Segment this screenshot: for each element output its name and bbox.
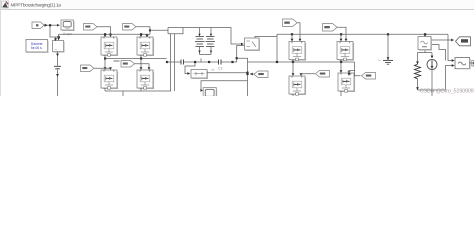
mosfet M1b (101, 70, 118, 89)
Goto tag T8 (301, 74, 315, 75)
bus corner to V2 (448, 34, 453, 60)
junction dot (58, 36, 60, 38)
wire below B1 to cap (57, 52, 59, 66)
wire T1 branch down to source block (50, 27, 59, 38)
svg-text:C3: C3 (218, 66, 223, 70)
B5 block (measure) (185, 63, 195, 74)
V2 lower wire (446, 66, 453, 91)
V1 stepped wire down right (432, 45, 446, 61)
V2 block (455, 58, 470, 69)
mosfet M2 (137, 37, 154, 56)
window edges (0, 0, 2, 96)
dot M2 drain (140, 33, 142, 35)
Goto tag T10 (456, 37, 471, 46)
From tag T5 (323, 24, 338, 32)
primary wiring (150, 29, 168, 31)
wire T1 to scope (44, 24, 60, 26)
transformer coil 1 (195, 37, 205, 47)
tiny label above M1b (114, 60, 120, 62)
capacitor C3 (218, 60, 220, 65)
drops to lower fets (104, 59, 106, 70)
V2 out (470, 62, 473, 64)
Goto tag T9 (355, 62, 361, 76)
mid rail left (104, 55, 106, 59)
mosfet M4b (338, 73, 355, 92)
right mid rail (292, 60, 294, 63)
feedback wire to scope2 (201, 81, 248, 91)
capacitor C2 (180, 60, 182, 65)
bottom rail left (104, 88, 106, 91)
transformer top bus (168, 28, 243, 45)
link to mid vertical (236, 57, 238, 59)
V1 out to Goto T10 (432, 39, 454, 41)
right bus (277, 33, 448, 35)
mosfet M3b (289, 76, 306, 95)
mosfet M1 (101, 37, 118, 56)
left drain bus (59, 33, 150, 35)
Goto tag T7 (246, 73, 248, 75)
From tag T3 (g2) (123, 24, 137, 31)
mosfet M3 (289, 42, 306, 61)
B5 out wire (207, 72, 248, 74)
block B1 (source measure) (53, 41, 65, 53)
svg-text:5e-06 s.: 5e-06 s. (31, 46, 43, 50)
resistor R load (415, 64, 421, 78)
svg-text:MPPTboostcharging(1).1a: MPPTboostcharging(1).1a (11, 2, 62, 8)
From tag T4 (283, 19, 298, 27)
bottom stubs right bridge (292, 94, 294, 96)
V0 out to right bus (255, 37, 277, 39)
V1 block (424, 33, 426, 35)
title icon (2, 1, 9, 8)
transformer coil 2 (206, 37, 216, 47)
dot M1 drain (104, 33, 106, 35)
transformer bottom bus (200, 54, 212, 56)
scope S2 (203, 88, 217, 97)
load branch wires (424, 51, 426, 53)
bus drops to M3 M4 (291, 33, 293, 35)
riser to V0 bottom port (237, 46, 253, 63)
current measure circle (431, 53, 433, 59)
ground symbol (383, 59, 393, 61)
From tag T11 (g-left-low) (81, 65, 95, 72)
From tag T2 (g1) (84, 24, 98, 31)
mosfet M2b (137, 70, 154, 89)
junction dot (49, 24, 51, 26)
wire below cap (57, 70, 59, 97)
ground branch (387, 33, 389, 35)
mosfet M4 (337, 42, 354, 61)
series cap line (166, 61, 168, 63)
From tag T1 (32, 22, 44, 28)
dc bus vertical into B1 (58, 34, 60, 39)
V0 measure block (245, 38, 260, 51)
From tag T6 (g3) (121, 61, 135, 68)
title bar (0, 0, 474, 10)
powergui block (26, 40, 48, 53)
wire T3 -> M2 gate (136, 27, 150, 35)
svg-text:CSDN @Brro_51909097: CSDN @Brro_51909097 (420, 89, 474, 95)
wire T2 -> M1 gate (97, 27, 111, 36)
scope Scope1 (61, 20, 74, 31)
capacitor / battery C-in (54, 65, 61, 67)
svg-text:ud: ud (211, 68, 215, 72)
